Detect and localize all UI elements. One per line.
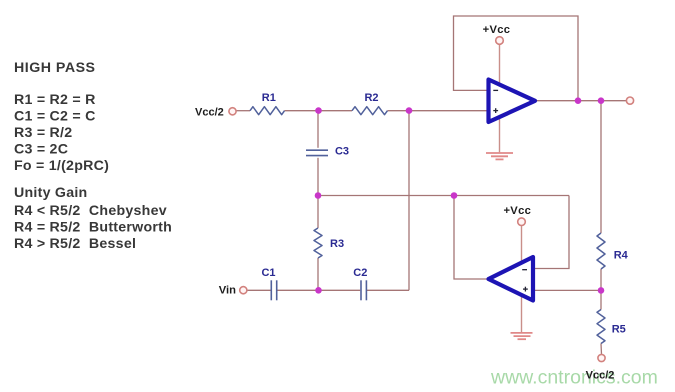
junction dot feedback at output [575,97,582,104]
U2 plus pin mark [523,287,528,292]
capacitor C2 [361,280,366,300]
op-amp U1 [489,80,536,123]
svg-text:Vcc/2: Vcc/2 [586,370,615,382]
svg-text:R5: R5 [612,324,626,336]
svg-text:C1 = C2 = C: C1 = C2 = C [14,109,96,125]
U1 minus pin mark [493,89,498,91]
capacitor C3 [306,150,328,155]
resistor R5 [597,310,605,344]
wire C3 down to node C [317,158,319,196]
svg-text:R4 > R5/2 Bessel: R4 > R5/2 Bessel [14,236,136,252]
node A junction dot [315,107,322,114]
svg-text:C3 = 2C: C3 = 2C [14,142,68,158]
svg-text:R2: R2 [364,92,378,104]
svg-text:R1: R1 [262,92,276,104]
op-amp U2 [489,257,534,301]
wire R4 to node D [600,269,602,290]
svg-text:C2: C2 [353,267,367,279]
svg-text:R3: R3 [330,238,344,250]
svg-text:Vcc/2: Vcc/2 [195,106,224,118]
wire riser from C2 line up to node B [408,111,410,291]
wire +Vcc supply to U2 and ground stem [521,226,523,333]
svg-text:R3 = R/2: R3 = R/2 [14,125,72,141]
wire R2 to op-amp U1 plus input [388,110,489,112]
svg-text:Fo = 1/(2pRC): Fo = 1/(2pRC) [14,158,109,174]
wire node C to corner above U2 minus input [318,195,569,197]
wire R1 to R2 through node A [285,110,353,112]
svg-text:R4: R4 [614,250,629,262]
wire node C to R3 [317,196,319,229]
node D junction dot [598,287,605,294]
resistor R2 [352,107,387,115]
svg-text:C1: C1 [261,267,275,279]
wire input terminal to R1 [237,110,251,112]
junction dot Vin node [315,287,322,294]
resistor R1 [250,107,285,115]
svg-text:R1 = R2 = R: R1 = R2 = R [14,92,96,108]
wire U1 feedback loop [454,16,579,101]
wire U2 plus input to node D [533,289,601,291]
resistor R4 [597,233,605,269]
svg-text:Vin: Vin [219,285,236,297]
resistor R3 [314,228,322,258]
U2 minus pin mark [522,269,527,271]
wire node D to R5 [600,290,602,309]
wire output node down to R4 [600,101,602,233]
svg-text:Unity Gain: Unity Gain [14,185,87,201]
svg-text:R4 = R5/2 Butterworth: R4 = R5/2 Butterworth [14,219,172,235]
wire Vin terminal to C1 [248,289,271,291]
wire R5 to bottom terminal [600,344,603,355]
U1 plus pin mark [493,108,498,113]
svg-text:C3: C3 [335,146,349,158]
ground for U1 [486,153,513,159]
terminal Vin [240,287,247,294]
svg-text:HIGH PASS: HIGH PASS [14,60,96,76]
terminal Vcc/2 bottom [598,354,605,361]
wire +Vcc supply to U1 and ground stem [499,44,501,152]
terminal output [626,97,633,104]
wire U1 output to output terminal [535,100,626,102]
terminal Vcc/2 input [229,108,236,115]
wire node A down to C3 [317,111,319,148]
svg-text:+Vcc: +Vcc [483,24,511,36]
wire C1 to C2 through Vin node [278,289,361,291]
junction dot U2 output riser [451,192,458,199]
node B junction dot [406,107,413,114]
svg-text:+Vcc: +Vcc [503,205,531,217]
node C junction dot [315,192,322,199]
terminal +Vcc U2 [518,218,526,226]
wire U2 output to node C riser [454,196,489,280]
capacitor C1 [271,280,276,300]
svg-text:R4 < R5/2 Chebyshev: R4 < R5/2 Chebyshev [14,203,167,219]
wire U2 minus feedback segment [533,196,569,269]
ground for U2 [511,333,533,339]
junction dot R4 top [598,97,605,104]
wire R3 to Vin node [317,258,319,290]
terminal +Vcc U1 [496,37,504,45]
wire C2 to riser corner [367,289,409,291]
svg-text:www.cntronics.com: www.cntronics.com [490,367,658,389]
